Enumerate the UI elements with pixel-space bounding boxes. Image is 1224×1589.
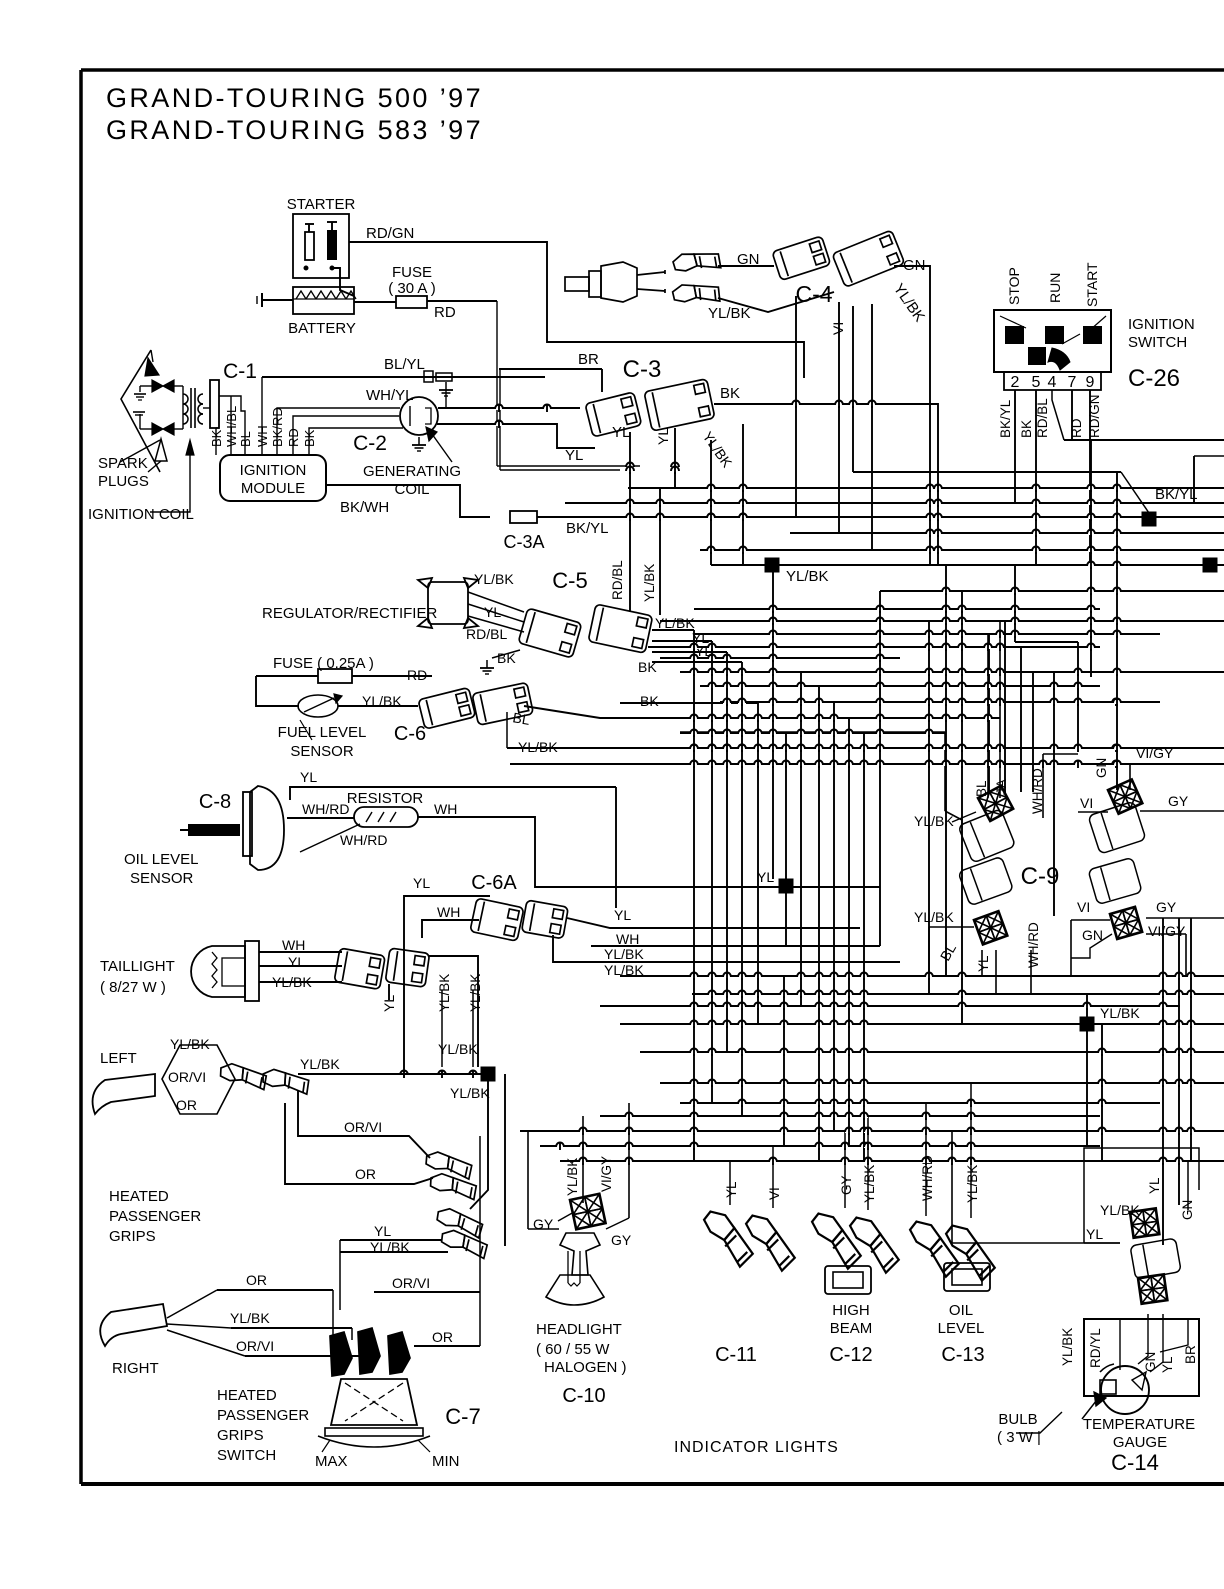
svg-text:YL: YL <box>724 1181 739 1198</box>
svg-text:BK/YL: BK/YL <box>1155 486 1198 503</box>
svg-text:LEVEL: LEVEL <box>938 1320 985 1337</box>
svg-text:REGULATOR/RECTIFIER: REGULATOR/RECTIFIER <box>262 605 437 622</box>
svg-text:YL: YL <box>1086 1226 1103 1242</box>
svg-text:BL/YL: BL/YL <box>384 356 425 373</box>
svg-text:GY: GY <box>1168 793 1189 809</box>
svg-text:C-6A: C-6A <box>471 872 517 894</box>
svg-text:YL: YL <box>976 955 991 972</box>
svg-text:C-13: C-13 <box>941 1344 984 1366</box>
svg-text:C-12: C-12 <box>829 1344 872 1366</box>
svg-text:YL/BK: YL/BK <box>437 974 452 1012</box>
svg-text:FUSE: FUSE <box>392 264 432 281</box>
svg-text:MODULE: MODULE <box>241 480 305 497</box>
svg-text:TAILLIGHT: TAILLIGHT <box>100 958 175 975</box>
svg-text:SENSOR: SENSOR <box>290 743 354 760</box>
svg-text:JA: JA <box>994 779 1009 795</box>
svg-text:SWITCH: SWITCH <box>217 1447 276 1464</box>
svg-text:LEFT: LEFT <box>100 1050 137 1067</box>
svg-text:2: 2 <box>1011 374 1020 391</box>
svg-text:VI: VI <box>1077 899 1090 915</box>
svg-text:WH/RD: WH/RD <box>302 801 349 817</box>
svg-text:WH: WH <box>616 931 639 947</box>
svg-text:YL/BK: YL/BK <box>655 615 695 631</box>
svg-text:OR/VI: OR/VI <box>392 1275 430 1291</box>
svg-text:( 3 W |: ( 3 W | <box>997 1429 1041 1446</box>
svg-text:WH: WH <box>434 801 457 817</box>
svg-text:BATTERY: BATTERY <box>288 320 356 337</box>
svg-text:YL: YL <box>413 875 430 891</box>
svg-text:YL: YL <box>1160 1356 1175 1373</box>
svg-text:YL/BK: YL/BK <box>230 1310 270 1326</box>
svg-text:RESISTOR: RESISTOR <box>347 790 424 807</box>
svg-text:WH: WH <box>282 937 305 953</box>
svg-text:C-14: C-14 <box>1111 1450 1159 1475</box>
svg-text:PLUGS: PLUGS <box>98 473 149 490</box>
svg-text:OR: OR <box>355 1166 376 1182</box>
svg-text:YL/BK: YL/BK <box>642 564 657 602</box>
svg-text:YL/BK: YL/BK <box>914 909 954 925</box>
svg-text:MIN: MIN <box>432 1453 460 1470</box>
svg-text:HEATED: HEATED <box>109 1188 169 1205</box>
svg-text:GRIPS: GRIPS <box>109 1228 156 1245</box>
svg-text:7: 7 <box>1068 374 1077 391</box>
svg-text:GENERATING: GENERATING <box>363 463 461 480</box>
svg-text:YL/BK: YL/BK <box>300 1056 340 1072</box>
svg-text:9: 9 <box>1086 374 1095 391</box>
svg-text:RD/BL: RD/BL <box>1035 398 1050 438</box>
svg-text:RD/GN: RD/GN <box>366 225 414 242</box>
svg-text:GY: GY <box>839 1175 854 1195</box>
svg-text:YL/BK: YL/BK <box>474 571 514 587</box>
svg-text:YL/BK: YL/BK <box>1060 1328 1075 1366</box>
svg-text:START: START <box>1084 262 1100 307</box>
svg-text:RD: RD <box>434 304 456 321</box>
svg-text:IGNITION COIL: IGNITION COIL <box>88 506 194 523</box>
svg-text:BR: BR <box>578 351 599 368</box>
svg-text:( 8/27 W ): ( 8/27 W ) <box>100 979 166 996</box>
svg-text:GRAND-TOURING 500 ’97: GRAND-TOURING 500 ’97 <box>106 83 483 113</box>
svg-text:OR/VI: OR/VI <box>168 1069 206 1085</box>
svg-text:RIGHT: RIGHT <box>112 1360 159 1377</box>
svg-text:YL: YL <box>374 1223 391 1239</box>
svg-text:C-1: C-1 <box>223 360 257 383</box>
svg-text:YL/BK: YL/BK <box>450 1085 490 1101</box>
svg-text:C-10: C-10 <box>562 1385 605 1407</box>
svg-text:YL: YL <box>565 447 583 464</box>
svg-text:BEAM: BEAM <box>830 1320 873 1337</box>
svg-text:( 30 A ): ( 30 A ) <box>388 280 436 297</box>
svg-text:OR: OR <box>432 1329 453 1345</box>
svg-text:YL: YL <box>288 954 305 970</box>
svg-text:C-11: C-11 <box>715 1344 757 1366</box>
svg-text:RD/BL: RD/BL <box>466 626 507 642</box>
svg-text:FUEL LEVEL: FUEL LEVEL <box>278 724 367 741</box>
svg-text:SPARK: SPARK <box>98 455 148 472</box>
svg-text:TEMPERATURE: TEMPERATURE <box>1083 1416 1195 1433</box>
svg-text:HEATED: HEATED <box>217 1387 277 1404</box>
svg-text:WH/RD: WH/RD <box>340 832 387 848</box>
svg-text:WH: WH <box>437 904 460 920</box>
svg-text:VI: VI <box>767 1187 782 1200</box>
svg-text:HEADLIGHT: HEADLIGHT <box>536 1321 622 1338</box>
svg-text:PASSENGER: PASSENGER <box>109 1208 201 1225</box>
svg-text:BULB: BULB <box>998 1411 1037 1428</box>
svg-text:C-4: C-4 <box>795 281 832 307</box>
svg-text:GN: GN <box>1082 927 1103 943</box>
svg-text:YL/BK: YL/BK <box>468 974 483 1012</box>
svg-text:BK/WH: BK/WH <box>340 499 389 516</box>
svg-text:BK: BK <box>720 385 740 402</box>
svg-text:C-3: C-3 <box>623 356 662 383</box>
svg-text:YL/BK: YL/BK <box>786 568 829 585</box>
svg-text:VI/GY: VI/GY <box>1136 745 1174 761</box>
svg-text:BR: BR <box>1183 1345 1198 1364</box>
svg-text:BK/YL: BK/YL <box>566 520 609 537</box>
svg-text:YL/BK: YL/BK <box>708 305 751 322</box>
svg-text:YL/BK: YL/BK <box>170 1036 210 1052</box>
svg-text:C-7: C-7 <box>445 1404 480 1429</box>
svg-text:BK/YL: BK/YL <box>998 399 1013 438</box>
svg-text:SENSOR: SENSOR <box>130 870 194 887</box>
svg-text:STOP: STOP <box>1006 267 1022 305</box>
svg-text:YL/BK: YL/BK <box>518 739 558 755</box>
svg-text:OR: OR <box>176 1097 197 1113</box>
svg-text:IGNITION: IGNITION <box>240 462 307 479</box>
svg-text:YL/BK: YL/BK <box>604 946 644 962</box>
svg-text:GY: GY <box>533 1216 554 1232</box>
svg-text:C-6: C-6 <box>394 723 426 745</box>
svg-text:BK: BK <box>1019 420 1034 438</box>
svg-text:STARTER: STARTER <box>287 196 356 213</box>
svg-text:YL: YL <box>300 769 317 785</box>
svg-text:BK: BK <box>640 693 659 709</box>
svg-text:YL/BK: YL/BK <box>914 813 954 829</box>
svg-text:C-5: C-5 <box>552 568 587 593</box>
svg-text:GN: GN <box>1094 758 1109 778</box>
svg-text:C-2: C-2 <box>353 432 387 455</box>
svg-text:GRAND-TOURING 583 ’97: GRAND-TOURING 583 ’97 <box>106 115 483 145</box>
svg-text:YL: YL <box>614 907 631 923</box>
svg-text:RD: RD <box>407 667 427 683</box>
svg-text:WH/RD: WH/RD <box>1026 922 1041 968</box>
svg-text:VI/GY: VI/GY <box>1148 923 1186 939</box>
svg-text:C-9: C-9 <box>1021 863 1060 890</box>
svg-text:YL: YL <box>1147 1177 1162 1194</box>
svg-text:YL/BK: YL/BK <box>565 1158 580 1196</box>
svg-text:4: 4 <box>1048 374 1057 391</box>
svg-text:YL/BK: YL/BK <box>965 1165 980 1203</box>
svg-text:YL: YL <box>655 428 671 445</box>
svg-text:INDICATOR LIGHTS: INDICATOR LIGHTS <box>674 1439 839 1456</box>
svg-text:GY: GY <box>611 1232 632 1248</box>
svg-text:GN: GN <box>1143 1352 1158 1372</box>
svg-text:HIGH: HIGH <box>832 1302 870 1319</box>
svg-text:HALOGEN ): HALOGEN ) <box>544 1359 627 1376</box>
svg-text:COIL: COIL <box>394 481 429 498</box>
svg-text:C-3A: C-3A <box>503 532 544 552</box>
svg-text:VI: VI <box>1080 795 1093 811</box>
svg-text:OR: OR <box>246 1272 267 1288</box>
svg-text:MAX: MAX <box>315 1453 348 1470</box>
svg-text:C-26: C-26 <box>1128 365 1180 392</box>
svg-text:RD/YL: RD/YL <box>1088 1328 1103 1368</box>
svg-text:VI: VI <box>830 322 846 335</box>
svg-text:RUN: RUN <box>1047 273 1063 303</box>
svg-text:PASSENGER: PASSENGER <box>217 1407 309 1424</box>
svg-text:WH/YL: WH/YL <box>366 387 414 404</box>
svg-text:YL/BK: YL/BK <box>438 1041 478 1057</box>
svg-text:C-8: C-8 <box>199 791 231 813</box>
svg-text:GRIPS: GRIPS <box>217 1427 264 1444</box>
svg-text:IGNITION: IGNITION <box>1128 316 1195 333</box>
svg-text:RD/BL: RD/BL <box>610 560 625 600</box>
svg-text:YL/BK: YL/BK <box>862 1165 877 1203</box>
svg-text:SWITCH: SWITCH <box>1128 334 1187 351</box>
svg-text:BL: BL <box>511 709 531 728</box>
svg-text:OR/VI: OR/VI <box>236 1338 274 1354</box>
svg-text:OIL: OIL <box>949 1302 973 1319</box>
svg-text:BL: BL <box>974 780 989 797</box>
svg-text:YL: YL <box>612 424 630 441</box>
svg-text:YL: YL <box>757 869 774 885</box>
svg-text:GAUGE: GAUGE <box>1113 1434 1167 1451</box>
svg-text:GY: GY <box>1156 899 1177 915</box>
svg-text:OR/VI: OR/VI <box>344 1119 382 1135</box>
svg-text:OIL LEVEL: OIL LEVEL <box>124 851 199 868</box>
svg-text:YL/BK: YL/BK <box>1100 1005 1140 1021</box>
svg-text:5: 5 <box>1032 374 1041 391</box>
svg-text:( 60 / 55 W: ( 60 / 55 W <box>536 1341 610 1358</box>
